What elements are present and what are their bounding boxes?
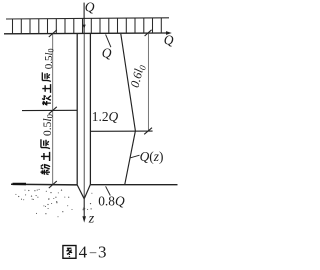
Q axis arrowhead: [166, 31, 172, 35]
left dim tick at layer boundary: [49, 107, 57, 114]
svg-text:0.5l0: 0.5l0: [42, 114, 55, 136]
svg-text:0.8Q: 0.8Q: [98, 193, 125, 208]
0.8Q leader: [106, 186, 111, 195]
pile tip level line left: [11, 183, 77, 186]
left dimension line: [52, 34, 54, 185]
left dim tick at ground: [49, 30, 57, 37]
hatch ticks: [13, 18, 162, 33]
soil layer boundary line: [22, 109, 77, 111]
svg-text:Q: Q: [164, 32, 174, 47]
z axis line: [83, 199, 85, 217]
pile left edge: [76, 34, 78, 185]
svg-text:Q: Q: [85, 0, 95, 15]
load Q arrowhead: [83, 25, 86, 29]
Q(z) curve upper branch: [121, 34, 136, 131]
right dimension line 0.6l0: [147, 33, 149, 131]
soft soil layer label (ruan tu ceng 0.5l0): [42, 48, 56, 105]
1.2Q level line: [90, 130, 152, 132]
Q curve-start leader: [106, 34, 111, 47]
ground line (Q axis): [4, 32, 167, 35]
load Q arrow line: [83, 3, 85, 33]
stipple dots (sand texture): [15, 189, 92, 217]
0.6l0 rotated label: [128, 63, 148, 90]
svg-text:3: 3: [98, 242, 107, 261]
pile center line: [83, 34, 85, 199]
right dim tick at 1.2Q level: [144, 128, 152, 135]
Q(z) curve lower branch: [125, 131, 136, 184]
pile tip V: [77, 184, 90, 198]
svg-text:1.2Q: 1.2Q: [92, 109, 119, 124]
left dim tick at pile tip level: [49, 181, 57, 188]
ground hatch band top line: [6, 18, 169, 19]
svg-text:4: 4: [79, 242, 88, 261]
z axis arrowhead: [82, 216, 86, 222]
svg-text:z: z: [88, 211, 95, 226]
dark segment of tip line: [13, 183, 27, 186]
svg-text:–: –: [89, 244, 97, 259]
svg-text:Q: Q: [102, 46, 112, 61]
Q(z) leader dash: [130, 155, 139, 158]
svg-text:Q(z): Q(z): [140, 149, 164, 164]
pile right edge: [89, 34, 91, 185]
silt layer label (fen tu ceng 0.5l0): [40, 114, 54, 175]
pile tip level line right: [90, 184, 177, 186]
right dim tick at ground: [145, 30, 152, 36]
caption tu (figure) character: [63, 246, 76, 259]
